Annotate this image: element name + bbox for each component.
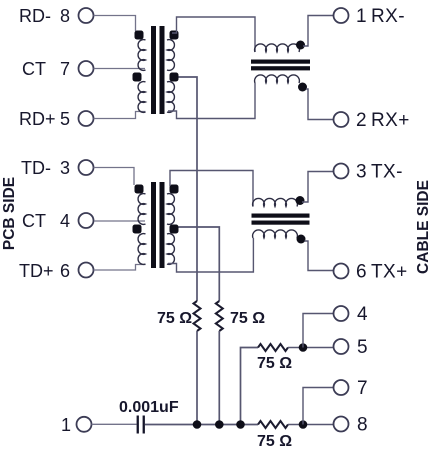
resistor R2 75 ohm (vertical) bbox=[216, 301, 223, 331]
T1 center tap dot right bbox=[170, 73, 179, 82]
wire junction to pin 4 bbox=[303, 314, 334, 348]
capacitor C1 0.001uF bbox=[137, 416, 139, 434]
svg-text:6: 6 bbox=[356, 262, 367, 283]
svg-text:7: 7 bbox=[357, 378, 368, 399]
svg-text:TX+: TX+ bbox=[371, 262, 408, 283]
svg-text:5: 5 bbox=[357, 337, 368, 358]
wire T2 top to choke L2 bbox=[170, 171, 253, 207]
choke L2 bottom winding bbox=[253, 230, 298, 238]
wire T1 bottom to choke L1 bottom bbox=[168, 83, 255, 119]
svg-text:CABLE SIDE: CABLE SIDE bbox=[415, 180, 432, 274]
wire pin8 to T1 bbox=[94, 16, 136, 32]
wire T2 bottom to choke L2 bottom bbox=[168, 238, 253, 272]
pin circle 6 (cable side) bbox=[334, 264, 349, 279]
svg-text:8: 8 bbox=[60, 6, 70, 26]
pin circle 5 (PCB side) bbox=[79, 111, 94, 126]
wire bus riser to R3 bbox=[241, 348, 259, 425]
pin circle 4 (cable side) bbox=[334, 306, 349, 321]
transformer T1 primary winding (left) bbox=[138, 40, 145, 113]
svg-text:75 Ω: 75 Ω bbox=[230, 310, 265, 327]
wire R3 to junction bbox=[288, 347, 334, 349]
svg-text:CT: CT bbox=[22, 59, 46, 79]
pin circle 3 (cable side) bbox=[334, 164, 349, 179]
wire pin5 to T1 bbox=[94, 112, 146, 119]
bus wire (bottom) bbox=[145, 424, 258, 426]
choke L1 top winding bbox=[255, 44, 300, 52]
T2 polarity dot top-left bbox=[135, 185, 144, 194]
wire pin7 to T1 center tap bbox=[94, 68, 146, 70]
wire pin1 to capacitor bbox=[92, 423, 137, 425]
svg-text:1: 1 bbox=[61, 415, 71, 435]
svg-text:6: 6 bbox=[60, 261, 70, 281]
wire pin6 to T2 bbox=[94, 265, 146, 271]
svg-text:RD-: RD- bbox=[19, 6, 51, 26]
T2 polarity dot top-right bbox=[170, 185, 179, 194]
svg-text:75 Ω: 75 Ω bbox=[157, 310, 192, 327]
resistor R3 75 ohm (horizontal, pins 4/5) bbox=[258, 344, 288, 351]
wire R2 to bus bbox=[218, 331, 220, 425]
svg-text:3: 3 bbox=[60, 158, 70, 178]
T2 center tap dot left bbox=[133, 225, 142, 234]
choke L1 dot top bbox=[296, 41, 305, 50]
svg-text:5: 5 bbox=[60, 109, 70, 129]
svg-text:2: 2 bbox=[356, 110, 367, 131]
transformer T2 secondary winding (right) bbox=[167, 194, 174, 265]
choke L2 top winding bbox=[253, 198, 298, 206]
wire junction to pin 7 bbox=[303, 388, 334, 425]
wire pin3 to T2 bbox=[94, 168, 135, 186]
wire choke L1 top to pin 1 bbox=[303, 16, 334, 47]
T1 polarity dot top-left bbox=[135, 31, 144, 40]
junction dot bus 1 bbox=[193, 420, 202, 429]
svg-text:1: 1 bbox=[356, 6, 367, 27]
wire R1 to bus bbox=[196, 331, 198, 425]
svg-text:3: 3 bbox=[356, 162, 367, 183]
T2 center tap dot right bbox=[170, 225, 179, 234]
transformer T1 secondary winding (right) bbox=[167, 40, 174, 113]
choke L2 dot top bbox=[296, 196, 305, 205]
pin circle 7 (PCB side) bbox=[79, 61, 94, 76]
pin circle 1 (bottom left) bbox=[77, 417, 92, 432]
junction dot bus 2 bbox=[215, 420, 224, 429]
junction dot pins 4/5 bbox=[299, 343, 308, 352]
choke L2 core bbox=[252, 214, 310, 218]
pin circle 5 (cable side) bbox=[334, 339, 349, 354]
svg-text:RX-: RX- bbox=[371, 6, 405, 27]
resistor R1 75 ohm (vertical) bbox=[194, 301, 201, 331]
junction dot pins 7/8 bbox=[299, 420, 308, 429]
svg-text:8: 8 bbox=[357, 415, 368, 436]
pin circle 8 (cable side) bbox=[334, 417, 349, 432]
pin circle 4 (PCB side) bbox=[79, 213, 94, 228]
svg-text:CT: CT bbox=[22, 211, 46, 231]
transformer T2 primary winding (left) bbox=[138, 194, 145, 265]
wire choke L1 bottom to pin 2 bbox=[306, 89, 334, 120]
wire T1 top to choke L1 bbox=[172, 17, 255, 52]
T1 center tap dot left bbox=[133, 73, 142, 82]
pin circle 8 (PCB side) bbox=[79, 8, 94, 23]
svg-text:75 Ω: 75 Ω bbox=[257, 355, 292, 372]
svg-text:TD+: TD+ bbox=[19, 261, 54, 281]
pin circle 1 (cable side) bbox=[334, 8, 349, 23]
svg-text:PCB SIDE: PCB SIDE bbox=[1, 177, 18, 250]
svg-text:7: 7 bbox=[60, 59, 70, 79]
svg-text:75 Ω: 75 Ω bbox=[257, 433, 292, 449]
transformer T2 core bbox=[151, 182, 156, 268]
wire R4 to pin 8 bbox=[288, 424, 334, 426]
wire choke L2 bottom to pin 6 bbox=[305, 241, 334, 271]
wire T1 center tap down to R1 bbox=[179, 77, 198, 301]
svg-text:RD+: RD+ bbox=[19, 109, 56, 129]
svg-text:TX-: TX- bbox=[371, 162, 403, 183]
junction dot bus 3 bbox=[236, 420, 245, 429]
resistor R4 75 ohm (horizontal, pins 7/8) bbox=[258, 421, 288, 428]
wire choke L2 top to pin 3 bbox=[302, 172, 334, 203]
svg-text:4: 4 bbox=[357, 304, 368, 325]
pin circle 2 (cable side) bbox=[334, 112, 349, 127]
svg-text:TD-: TD- bbox=[21, 158, 51, 178]
wire pin4 to T2 center tap bbox=[94, 220, 145, 222]
choke L2 dot bottom bbox=[297, 235, 306, 244]
wire T2 center tap down to R2 bbox=[179, 227, 220, 301]
svg-text:RX+: RX+ bbox=[371, 110, 410, 131]
svg-text:4: 4 bbox=[60, 211, 70, 231]
T1 polarity dot top-right bbox=[170, 31, 179, 40]
svg-text:0.001uF: 0.001uF bbox=[119, 399, 179, 416]
pin circle 6 (PCB side) bbox=[79, 263, 94, 278]
choke L1 bottom winding bbox=[255, 75, 300, 83]
choke L1 core bbox=[251, 60, 310, 64]
transformer T1 core bbox=[151, 26, 156, 114]
choke L1 dot bottom bbox=[298, 83, 307, 92]
pin circle 7 (cable side) bbox=[334, 380, 349, 395]
pin circle 3 (PCB side) bbox=[79, 160, 94, 175]
